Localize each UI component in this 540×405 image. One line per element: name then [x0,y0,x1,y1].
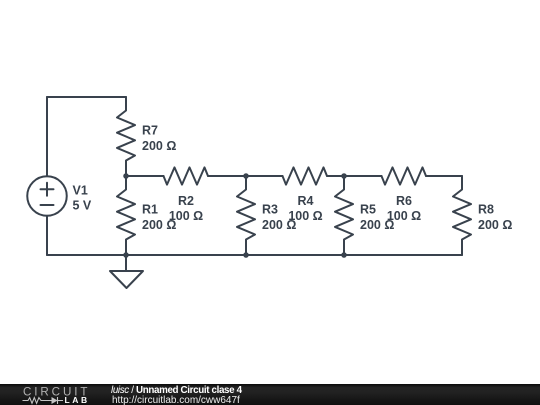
resistor R2 [164,167,209,184]
svg-text:R8: R8 [478,203,494,217]
footer line 1 [111,386,242,396]
svg-text:200 Ω: 200 Ω [142,139,176,153]
footer line 2 [112,396,240,405]
wire R6 to R8 top [426,175,462,177]
wire node B segment [246,175,283,177]
label R5 200 Ω [360,203,394,233]
svg-text:R5: R5 [360,203,376,217]
svg-text:R1: R1 [142,203,158,217]
resistor R5 [335,176,353,255]
node junction ground bus at R5 [341,252,347,258]
wire V1 bottom lead [46,216,48,255]
footer bar [0,384,540,405]
wire R4 to node C [327,175,344,177]
node junction C (R4/R5/R6) [341,173,347,179]
resistor R3 [237,176,255,255]
wire node C segment [344,175,382,177]
svg-text:5 V: 5 V [73,198,92,212]
svg-text:100 Ω: 100 Ω [387,209,421,223]
svg-text:R6: R6 [396,194,412,208]
ground [110,255,143,288]
svg-text:R4: R4 [298,194,314,208]
svg-text:LAB: LAB [65,395,90,405]
node junction B (R2/R3/R4) [243,173,249,179]
svg-text:100 Ω: 100 Ω [169,209,203,223]
svg-text:R7: R7 [142,124,158,138]
resistor R1 [117,176,135,255]
svg-text:200 Ω: 200 Ω [478,218,512,232]
label R4 100 Ω [288,194,322,223]
label R2 100 Ω [169,194,203,223]
resistor R7 [117,97,135,176]
voltage source V1 [27,176,67,216]
label V1 5 V [73,183,92,212]
resistor R8 [453,176,471,255]
label R7 200 Ω [142,124,176,153]
label R1 200 Ω [142,203,176,233]
wire bottom ground bus [47,254,462,256]
node junction A (R7/R1/R2) [123,173,129,179]
resistor R6 [382,167,427,184]
svg-text:V1: V1 [73,183,88,197]
wire top bus [47,96,126,98]
wire R2 to node B [208,175,246,177]
node junction ground bus at R3 [243,252,249,258]
svg-text:100 Ω: 100 Ω [288,209,322,223]
wire left vertical (V1 top lead) [46,97,48,176]
svg-text:R2: R2 [178,194,194,208]
node junction ground bus at R1 [123,252,129,258]
svg-text:R3: R3 [262,203,278,217]
wire node A segment [126,175,164,177]
label R8 200 Ω [478,203,512,233]
label R3 200 Ω [262,203,296,233]
label R6 100 Ω [387,194,421,223]
resistor R4 [283,167,328,184]
CircuitLab logo [0,384,100,405]
